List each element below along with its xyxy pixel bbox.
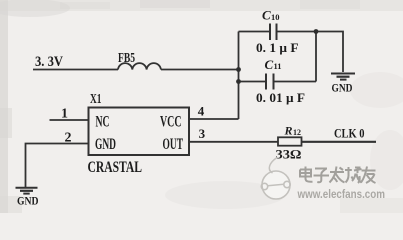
char zi [314, 169, 330, 183]
char you [361, 167, 376, 184]
svg-text:C: C [265, 57, 274, 72]
wire left vertical rail [238, 32, 240, 120]
resistor R12 [278, 137, 302, 145]
svg-text:0. 1 μ F: 0. 1 μ F [256, 41, 299, 55]
svg-text:1: 1 [61, 107, 68, 122]
svg-text:www.elecfans.com: www.elecfans.com [297, 187, 385, 201]
watermark text dianzifashaoyou (drawn strokes) [300, 167, 376, 184]
svg-text:R: R [284, 124, 293, 138]
char fa [330, 167, 345, 183]
IC box X1 [89, 108, 190, 156]
wire 3.3V rail [33, 69, 118, 71]
svg-text:GND: GND [332, 80, 353, 94]
svg-text:3: 3 [199, 126, 206, 141]
svg-text:0. 01 μ F: 0. 01 μ F [256, 91, 305, 105]
junction node C10/GND [314, 29, 319, 34]
svg-text:4: 4 [198, 103, 205, 118]
svg-text:FB5: FB5 [118, 50, 135, 65]
ground symbol left [16, 187, 38, 189]
char shao [345, 167, 362, 183]
svg-text:CRASTAL: CRASTAL [88, 159, 143, 176]
svg-text:2: 2 [65, 131, 72, 146]
ground symbol right [331, 73, 355, 75]
capacitor C11 [265, 74, 267, 90]
svg-text:11: 11 [274, 61, 282, 71]
wire to GND right [316, 32, 343, 73]
svg-text:OUT: OUT [163, 136, 184, 153]
svg-text:C: C [262, 8, 271, 23]
char dian [300, 167, 313, 182]
junction node 3.3V/rail [236, 67, 241, 72]
wire C11 branch [239, 81, 267, 83]
svg-text:GND: GND [17, 194, 39, 208]
inductor FB5 [118, 63, 161, 69]
wire right vertical rail [315, 32, 317, 82]
svg-text:3. 3V: 3. 3V [35, 54, 63, 70]
capacitor C10 [269, 24, 271, 41]
svg-text:VCC: VCC [160, 114, 182, 131]
watermark logo circle [261, 158, 290, 200]
svg-text:12: 12 [293, 128, 301, 137]
wire pin1 NC [50, 119, 89, 121]
svg-text:33Ω: 33Ω [276, 147, 302, 162]
wire pin2 GND [26, 144, 89, 188]
svg-text:GND: GND [95, 136, 116, 153]
wire R12 to CLK0 [302, 141, 377, 143]
wire C10 branch [239, 31, 271, 33]
svg-text:10: 10 [271, 12, 280, 22]
svg-text:NC: NC [96, 114, 110, 131]
svg-text:X1: X1 [90, 91, 102, 106]
wire pin3 OUT to R12 [189, 141, 278, 143]
junction node C11/rail [236, 79, 241, 84]
svg-text:CLK 0: CLK 0 [334, 127, 365, 141]
wire pin4 VCC [189, 118, 239, 120]
wire FB5 to rail [161, 69, 239, 71]
